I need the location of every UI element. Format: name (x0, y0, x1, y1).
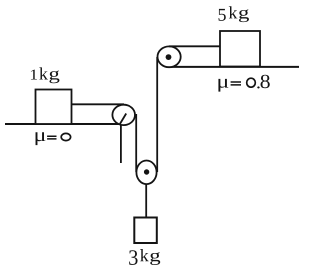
pulley P3 axle dot (144, 169, 149, 174)
table left surface (5, 123, 122, 125)
rope P1 down to P3 (135, 114, 137, 172)
point-eight of mu = 0.8 (257, 86, 259, 88)
rope block1 to P1 (72, 103, 125, 105)
pulley P2 (right, fixed) (158, 46, 181, 67)
zero of mu = 0 (61, 133, 70, 140)
block 1 kg (36, 90, 72, 125)
zero of mu = 0.8 (247, 78, 256, 87)
pulley P1 mount line (119, 114, 126, 126)
table left edge (120, 124, 122, 163)
label 1 kg letters (39, 67, 59, 83)
equals sign of mu = 0.8 (231, 82, 241, 85)
label 3 kg letters (140, 249, 160, 265)
label mu = 0.8 (218, 79, 228, 92)
block 5 kg (220, 31, 260, 67)
string P3 to block 3 kg (145, 184, 147, 218)
label 5 kg (219, 9, 226, 21)
label mu = 0 (36, 132, 46, 145)
table right surface (168, 66, 299, 68)
rope P3 up to P2 (156, 57, 158, 172)
label 5 kg letters (229, 6, 249, 22)
equals sign of mu = 0 (47, 136, 56, 139)
label 3 kg (129, 250, 137, 265)
rope P2 to block5 (169, 45, 220, 47)
block 3 kg (134, 218, 157, 244)
pulley P2 axle dot (166, 54, 172, 60)
pulley P3 (movable) (136, 161, 156, 185)
label 1 kg (31, 70, 37, 80)
pulley P1 (left, fixed) (112, 105, 135, 125)
